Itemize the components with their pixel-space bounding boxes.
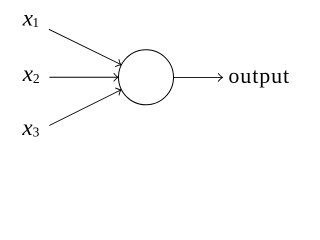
svg-text:1: 1 (32, 15, 39, 30)
svg-text:2: 2 (33, 71, 40, 86)
svg-text:x: x (21, 115, 33, 140)
wire from x1 to neuron (49, 29, 121, 64)
wire from x2 to neuron (49, 76, 117, 78)
arrowhead x1 (116, 60, 123, 69)
wire from x3 to neuron (49, 90, 120, 126)
arrowhead x3 (116, 86, 123, 95)
output wire (174, 76, 222, 78)
svg-text:output: output (228, 63, 290, 88)
label x1 (22, 5, 39, 30)
svg-text:3: 3 (33, 125, 40, 140)
neuron circle (119, 50, 174, 105)
label x3 (21, 115, 39, 140)
arrowhead output (218, 74, 222, 82)
svg-text:x: x (22, 61, 34, 86)
label x2 (22, 61, 40, 86)
arrowhead x2 (114, 73, 118, 81)
